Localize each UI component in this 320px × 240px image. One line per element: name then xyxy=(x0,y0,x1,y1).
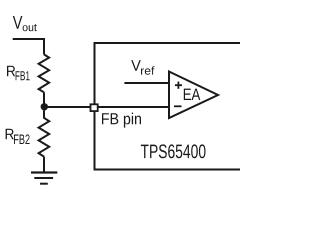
wire RFB1 to node xyxy=(43,92,45,107)
wire Vref to EA + input xyxy=(124,82,169,84)
op-amp EA triangle xyxy=(169,72,218,119)
node Vout label xyxy=(13,16,37,31)
label EA xyxy=(184,89,201,100)
wire Vout terminal bar xyxy=(13,39,44,54)
ground xyxy=(31,173,57,184)
plus sign EA + input xyxy=(175,82,182,89)
label FB pin xyxy=(102,113,141,128)
resistor RFB2 xyxy=(39,111,50,157)
node Vref label xyxy=(131,60,154,75)
label TPS65400 xyxy=(141,144,206,158)
wire RFB2 to ground xyxy=(43,157,45,173)
resistor RFB1 xyxy=(39,54,50,92)
IC box TPS65400 (open right side) xyxy=(95,43,241,170)
node junction dot xyxy=(41,103,48,110)
pin FB square xyxy=(91,104,98,111)
label RFB1 xyxy=(7,66,30,80)
wire FB pin to EA - input xyxy=(98,106,169,108)
minus sign EA - input xyxy=(174,105,182,107)
wire node to FB pin xyxy=(44,106,90,108)
label RFB2 xyxy=(6,129,30,144)
